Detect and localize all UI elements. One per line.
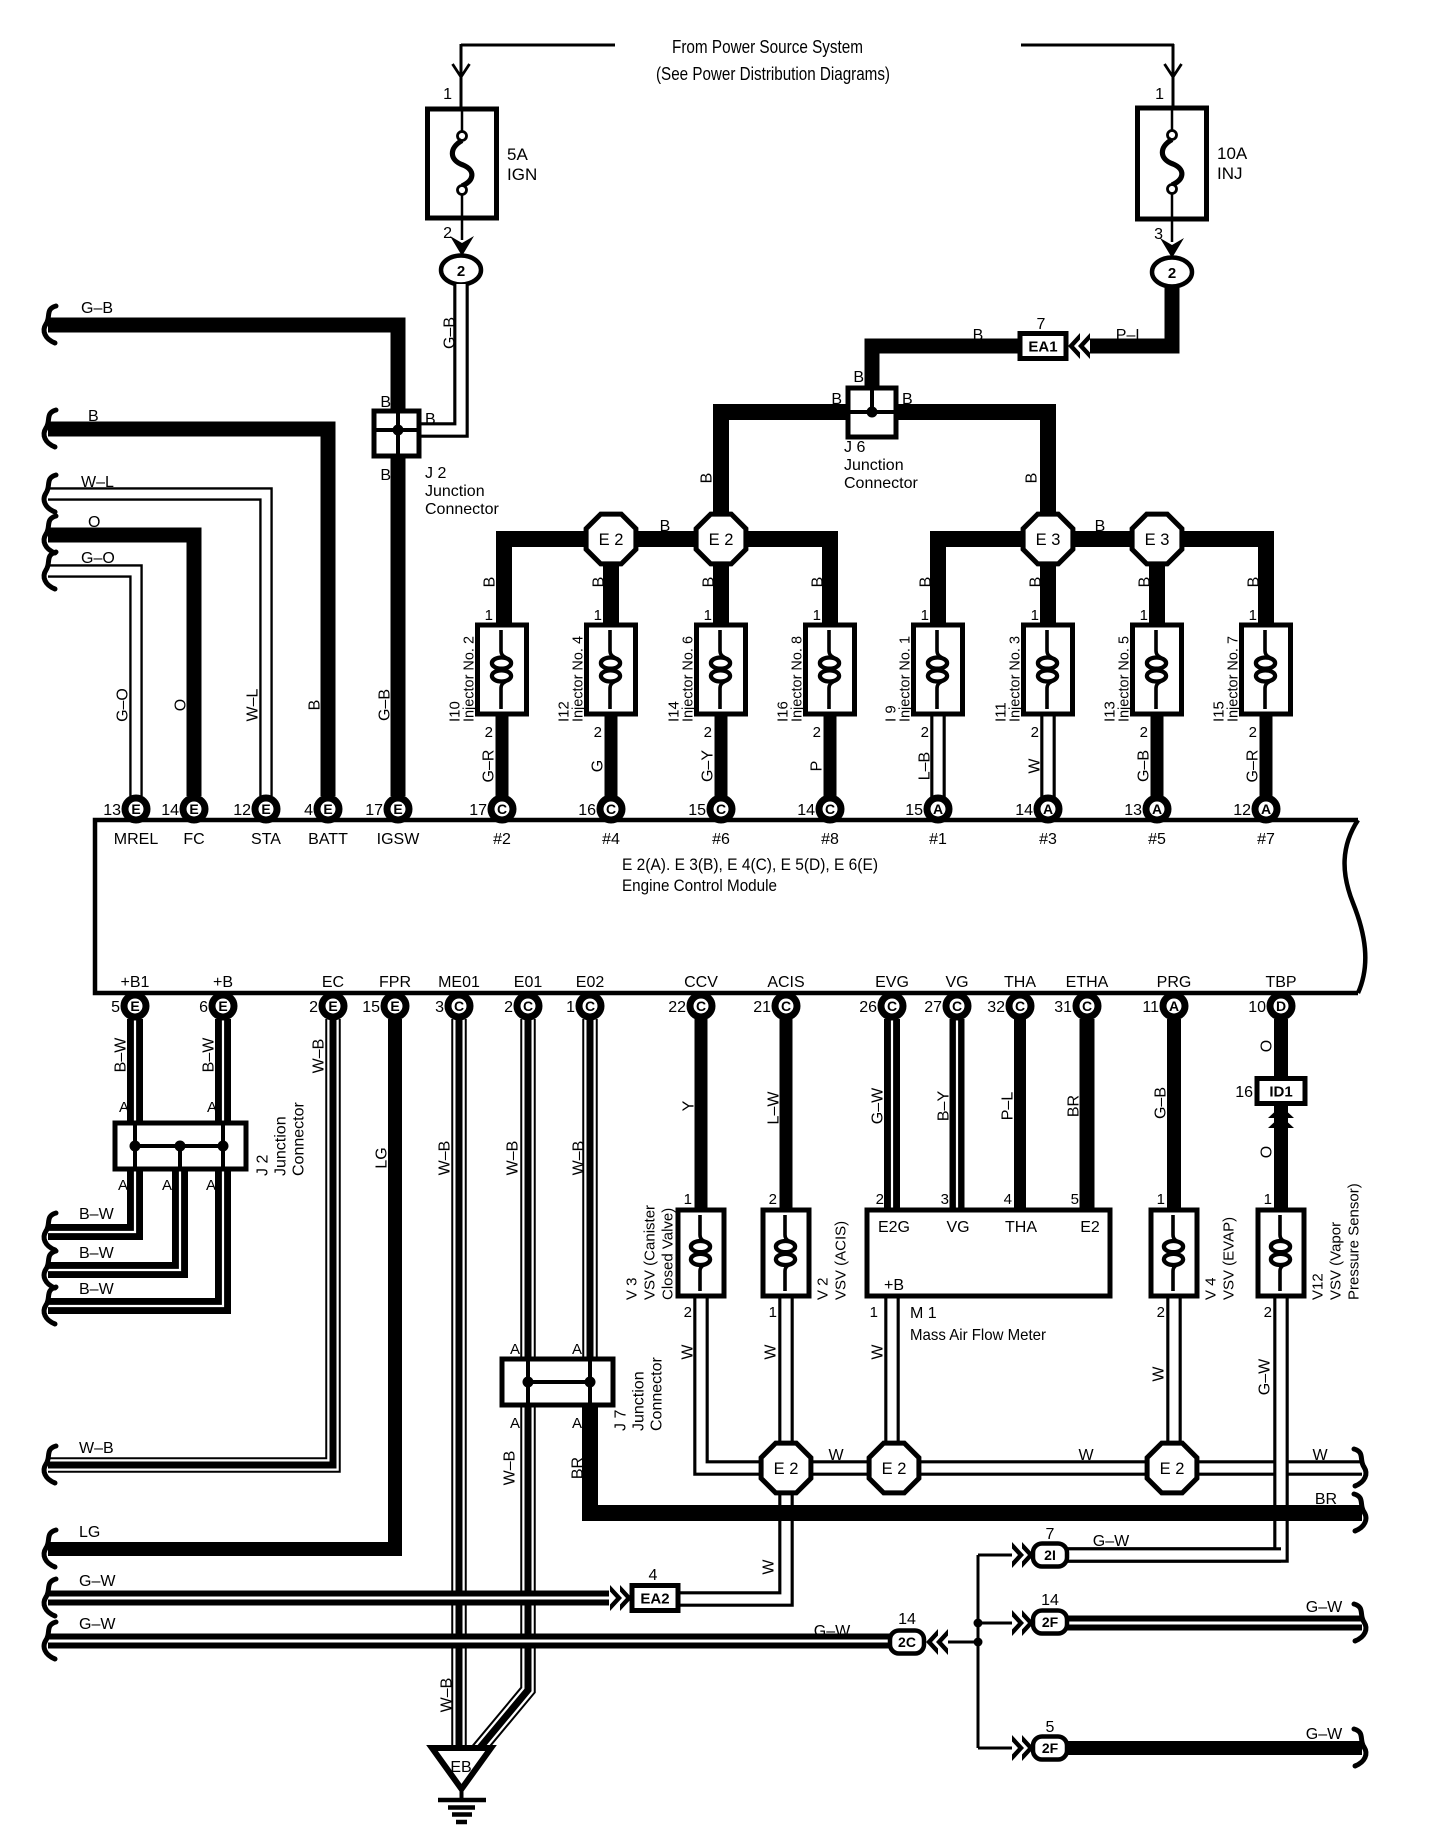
svg-text:1: 1 bbox=[921, 607, 929, 624]
svg-text:G–B: G–B bbox=[81, 300, 113, 317]
svg-text:W–B: W–B bbox=[311, 1039, 328, 1074]
svg-text:C: C bbox=[606, 801, 616, 817]
svg-text:1: 1 bbox=[443, 86, 452, 103]
svg-text:A: A bbox=[207, 1099, 217, 1116]
svg-text:G–B: G–B bbox=[442, 317, 459, 349]
svg-text:LG: LG bbox=[374, 1147, 391, 1168]
svg-text:(See Power Distribution Diagr: (See Power Distribution Diagrams) bbox=[656, 64, 890, 84]
svg-text:B: B bbox=[482, 577, 499, 588]
svg-text:A: A bbox=[510, 1415, 520, 1432]
svg-text:P–L: P–L bbox=[1116, 327, 1145, 344]
svg-text:2: 2 bbox=[813, 724, 821, 741]
svg-text:E: E bbox=[390, 998, 399, 1014]
svg-text:1: 1 bbox=[684, 1191, 692, 1208]
svg-text:15: 15 bbox=[362, 999, 380, 1016]
svg-text:E 2: E 2 bbox=[774, 1460, 799, 1478]
svg-text:B–W: B–W bbox=[79, 1206, 115, 1223]
svg-text:Y: Y bbox=[681, 1100, 698, 1111]
svg-text:G–W: G–W bbox=[79, 1573, 116, 1590]
svg-text:2: 2 bbox=[443, 225, 452, 242]
svg-text:E 2: E 2 bbox=[599, 531, 624, 549]
svg-text:1: 1 bbox=[1031, 607, 1039, 624]
svg-text:#2: #2 bbox=[493, 831, 511, 848]
svg-text:B: B bbox=[307, 700, 324, 711]
svg-text:A: A bbox=[1261, 801, 1271, 817]
svg-text:2: 2 bbox=[1168, 265, 1176, 282]
svg-text:W–B: W–B bbox=[505, 1141, 522, 1176]
svg-text:C: C bbox=[781, 998, 791, 1014]
svg-text:W: W bbox=[828, 1447, 844, 1464]
svg-text:EA2: EA2 bbox=[640, 1591, 669, 1608]
svg-text:W: W bbox=[1151, 1366, 1168, 1382]
svg-text:W–B: W–B bbox=[79, 1440, 114, 1457]
svg-text:1: 1 bbox=[566, 999, 575, 1016]
svg-text:P–L: P–L bbox=[1000, 1092, 1017, 1121]
svg-text:13: 13 bbox=[1124, 802, 1142, 819]
svg-text:E: E bbox=[131, 801, 140, 817]
svg-text:12: 12 bbox=[233, 802, 251, 819]
svg-text:E 2: E 2 bbox=[1160, 1460, 1185, 1478]
svg-text:B: B bbox=[973, 327, 984, 344]
svg-text:Junction: Junction bbox=[631, 1371, 648, 1431]
svg-text:1: 1 bbox=[1157, 1191, 1165, 1208]
svg-text:L–B: L–B bbox=[917, 752, 934, 780]
svg-text:ACIS: ACIS bbox=[767, 974, 804, 991]
svg-text:A: A bbox=[1169, 998, 1179, 1014]
svg-text:#5: #5 bbox=[1148, 831, 1166, 848]
svg-text:+B1: +B1 bbox=[121, 974, 150, 991]
svg-text:G–O: G–O bbox=[81, 550, 115, 567]
svg-text:C: C bbox=[952, 998, 962, 1014]
svg-text:G–B: G–B bbox=[1136, 750, 1153, 782]
svg-text:Connector: Connector bbox=[425, 501, 499, 518]
svg-text:G–W: G–W bbox=[870, 1087, 887, 1124]
svg-text:32: 32 bbox=[987, 999, 1005, 1016]
svg-text:VSV (ACIS): VSV (ACIS) bbox=[833, 1221, 850, 1300]
svg-text:G–O: G–O bbox=[115, 688, 132, 722]
svg-text:2C: 2C bbox=[898, 1634, 916, 1650]
svg-text:22: 22 bbox=[668, 999, 686, 1016]
svg-text:16: 16 bbox=[578, 802, 596, 819]
svg-text:G–W: G–W bbox=[1306, 1599, 1343, 1616]
svg-text:E2: E2 bbox=[1080, 1219, 1100, 1236]
svg-text:B–Y: B–Y bbox=[936, 1091, 953, 1122]
svg-text:Connector: Connector bbox=[844, 475, 918, 492]
svg-text:W–B: W–B bbox=[439, 1678, 456, 1713]
svg-text:G: G bbox=[590, 760, 607, 772]
svg-text:B: B bbox=[699, 473, 716, 484]
svg-text:A: A bbox=[572, 1415, 582, 1432]
svg-text:5A: 5A bbox=[507, 145, 528, 164]
svg-text:15: 15 bbox=[688, 802, 706, 819]
svg-text:B: B bbox=[1137, 577, 1154, 588]
svg-text:C: C bbox=[454, 998, 464, 1014]
svg-text:EVG: EVG bbox=[875, 974, 909, 991]
svg-text:J 2: J 2 bbox=[255, 1155, 272, 1176]
svg-text:16: 16 bbox=[1235, 1084, 1253, 1101]
svg-text:31: 31 bbox=[1054, 999, 1072, 1016]
svg-text:W–B: W–B bbox=[502, 1451, 519, 1486]
svg-text:B: B bbox=[1246, 577, 1263, 588]
svg-text:STA: STA bbox=[251, 831, 281, 848]
svg-text:L–W: L–W bbox=[766, 1091, 783, 1125]
svg-text:G–W: G–W bbox=[1257, 1358, 1274, 1395]
svg-text:1: 1 bbox=[1155, 86, 1164, 103]
svg-text:2: 2 bbox=[1264, 1304, 1272, 1321]
svg-text:1: 1 bbox=[1140, 607, 1148, 624]
svg-text:J 6: J 6 bbox=[844, 439, 865, 456]
svg-text:E 2(A). E 3(B), E 4(C), E 5(D): E 2(A). E 3(B), E 4(C), E 5(D), E 6(E) bbox=[622, 855, 878, 874]
svg-text:#1: #1 bbox=[929, 831, 947, 848]
svg-text:C: C bbox=[825, 801, 835, 817]
svg-text:B: B bbox=[380, 467, 391, 484]
svg-text:W: W bbox=[1312, 1447, 1328, 1464]
svg-text:2: 2 bbox=[1157, 1304, 1165, 1321]
svg-text:CCV: CCV bbox=[684, 974, 718, 991]
svg-text:14: 14 bbox=[898, 1611, 916, 1628]
svg-text:E 3: E 3 bbox=[1145, 531, 1170, 549]
svg-text:E02: E02 bbox=[576, 974, 605, 991]
svg-text:C: C bbox=[887, 998, 897, 1014]
svg-text:5: 5 bbox=[1046, 1719, 1055, 1736]
svg-text:O: O bbox=[1259, 1146, 1276, 1158]
svg-text:Pressure Sensor): Pressure Sensor) bbox=[1346, 1183, 1363, 1300]
svg-text:MREL: MREL bbox=[114, 831, 159, 848]
svg-text:W: W bbox=[680, 1344, 697, 1360]
svg-text:13: 13 bbox=[103, 802, 121, 819]
svg-text:Connector: Connector bbox=[649, 1357, 666, 1431]
svg-text:Injector No. 5: Injector No. 5 bbox=[1116, 636, 1133, 722]
svg-text:ETHA: ETHA bbox=[1066, 974, 1109, 991]
svg-text:G–Y: G–Y bbox=[700, 750, 717, 782]
svg-text:26: 26 bbox=[859, 999, 877, 1016]
svg-text:IGN: IGN bbox=[507, 165, 537, 184]
svg-text:Injector No. 7: Injector No. 7 bbox=[1225, 636, 1242, 722]
svg-text:1: 1 bbox=[813, 607, 821, 624]
svg-text:E 2: E 2 bbox=[709, 531, 734, 549]
svg-text:E: E bbox=[261, 801, 270, 817]
svg-text:TBP: TBP bbox=[1265, 974, 1296, 991]
svg-text:IGSW: IGSW bbox=[377, 831, 421, 848]
svg-text:B: B bbox=[1024, 473, 1041, 484]
svg-text:LG: LG bbox=[79, 1524, 100, 1541]
svg-text:BATT: BATT bbox=[308, 831, 348, 848]
svg-text:Mass Air Flow Meter: Mass Air Flow Meter bbox=[910, 1327, 1047, 1344]
svg-text:BR: BR bbox=[1066, 1095, 1083, 1117]
svg-text:B: B bbox=[918, 577, 935, 588]
svg-text:+B: +B bbox=[884, 1277, 904, 1294]
svg-text:E 3: E 3 bbox=[1036, 531, 1061, 549]
svg-text:V 4: V 4 bbox=[1203, 1277, 1220, 1300]
svg-text:3: 3 bbox=[435, 999, 444, 1016]
svg-text:A: A bbox=[1043, 801, 1053, 817]
svg-text:5: 5 bbox=[1071, 1191, 1079, 1208]
svg-text:VSV (EVAP): VSV (EVAP) bbox=[1221, 1217, 1238, 1300]
svg-text:3: 3 bbox=[941, 1191, 949, 1208]
svg-text:14: 14 bbox=[161, 802, 179, 819]
svg-text:EA1: EA1 bbox=[1028, 339, 1057, 356]
svg-text:VG: VG bbox=[945, 974, 968, 991]
svg-text:B–W: B–W bbox=[201, 1037, 218, 1073]
svg-text:2: 2 bbox=[921, 724, 929, 741]
svg-text:+B: +B bbox=[213, 974, 233, 991]
svg-text:2: 2 bbox=[769, 1191, 777, 1208]
svg-text:14: 14 bbox=[1015, 802, 1033, 819]
svg-text:W–B: W–B bbox=[571, 1141, 588, 1176]
svg-text:THA: THA bbox=[1004, 974, 1036, 991]
svg-text:E: E bbox=[218, 998, 227, 1014]
svg-text:A: A bbox=[933, 801, 943, 817]
svg-text:2: 2 bbox=[457, 263, 465, 280]
svg-text:G–W: G–W bbox=[79, 1616, 116, 1633]
svg-text:B: B bbox=[853, 369, 864, 386]
svg-text:14: 14 bbox=[797, 802, 815, 819]
svg-text:D: D bbox=[1276, 998, 1286, 1014]
svg-text:W: W bbox=[1027, 758, 1044, 774]
svg-text:2F: 2F bbox=[1042, 1740, 1059, 1756]
svg-text:2I: 2I bbox=[1044, 1547, 1056, 1563]
svg-text:7: 7 bbox=[1046, 1526, 1055, 1543]
svg-text:ME01: ME01 bbox=[438, 974, 480, 991]
svg-text:Injector No. 4: Injector No. 4 bbox=[570, 636, 587, 722]
svg-text:Injector No. 6: Injector No. 6 bbox=[680, 636, 697, 722]
svg-text:17: 17 bbox=[365, 802, 383, 819]
svg-text:G–W: G–W bbox=[814, 1623, 851, 1640]
svg-text:#6: #6 bbox=[712, 831, 730, 848]
svg-text:P: P bbox=[809, 761, 826, 772]
svg-text:B–W: B–W bbox=[79, 1245, 115, 1262]
svg-text:V12: V12 bbox=[1310, 1273, 1327, 1300]
svg-text:G–B: G–B bbox=[377, 689, 394, 721]
svg-text:W: W bbox=[870, 1344, 887, 1360]
svg-text:Injector No. 8: Injector No. 8 bbox=[789, 636, 806, 722]
svg-text:B: B bbox=[591, 577, 608, 588]
svg-text:B: B bbox=[660, 518, 671, 535]
svg-text:Injector No. 1: Injector No. 1 bbox=[897, 636, 914, 722]
svg-text:E2G: E2G bbox=[878, 1219, 910, 1236]
svg-text:INJ: INJ bbox=[1217, 164, 1243, 183]
svg-text:14: 14 bbox=[1041, 1592, 1059, 1609]
svg-text:27: 27 bbox=[924, 999, 942, 1016]
svg-text:VSV (Canister: VSV (Canister bbox=[642, 1205, 659, 1300]
svg-text:4: 4 bbox=[649, 1567, 658, 1584]
svg-text:5: 5 bbox=[111, 999, 120, 1016]
svg-text:10A: 10A bbox=[1217, 144, 1248, 163]
svg-text:11: 11 bbox=[1142, 999, 1159, 1016]
svg-text:Connector: Connector bbox=[291, 1102, 308, 1176]
svg-text:1: 1 bbox=[594, 607, 602, 624]
svg-text:V 2: V 2 bbox=[815, 1277, 832, 1300]
svg-text:A: A bbox=[118, 1177, 128, 1194]
svg-text:From Power Source System: From Power Source System bbox=[672, 37, 863, 57]
svg-text:2: 2 bbox=[504, 999, 513, 1016]
svg-text:C: C bbox=[696, 998, 706, 1014]
svg-text:2: 2 bbox=[1031, 724, 1039, 741]
svg-text:G–W: G–W bbox=[1093, 1533, 1130, 1550]
svg-text:O: O bbox=[173, 699, 190, 711]
svg-text:17: 17 bbox=[469, 802, 487, 819]
svg-text:1: 1 bbox=[769, 1304, 777, 1321]
svg-text:G–R: G–R bbox=[1245, 750, 1262, 783]
svg-text:A: A bbox=[510, 1341, 520, 1358]
svg-text:Junction: Junction bbox=[425, 483, 485, 500]
svg-text:21: 21 bbox=[753, 999, 771, 1016]
svg-text:2: 2 bbox=[485, 724, 493, 741]
svg-text:2: 2 bbox=[1249, 724, 1257, 741]
svg-text:M 1: M 1 bbox=[910, 1305, 937, 1322]
svg-text:B: B bbox=[1028, 577, 1045, 588]
svg-text:A: A bbox=[206, 1177, 216, 1194]
svg-text:W–B: W–B bbox=[437, 1141, 454, 1176]
svg-text:1: 1 bbox=[704, 607, 712, 624]
svg-text:EC: EC bbox=[322, 974, 344, 991]
svg-text:E: E bbox=[189, 801, 198, 817]
svg-text:C: C bbox=[523, 998, 533, 1014]
svg-text:G–W: G–W bbox=[1306, 1726, 1343, 1743]
svg-text:E 2: E 2 bbox=[882, 1460, 907, 1478]
svg-text:Engine Control Module: Engine Control Module bbox=[622, 876, 777, 895]
svg-text:2F: 2F bbox=[1042, 1614, 1059, 1630]
svg-text:W: W bbox=[1078, 1447, 1094, 1464]
svg-text:2: 2 bbox=[594, 724, 602, 741]
svg-text:B: B bbox=[425, 411, 436, 428]
svg-text:E: E bbox=[393, 801, 402, 817]
svg-text:A: A bbox=[1152, 801, 1162, 817]
svg-text:#4: #4 bbox=[602, 831, 620, 848]
svg-text:10: 10 bbox=[1248, 999, 1266, 1016]
svg-text:2: 2 bbox=[309, 999, 318, 1016]
svg-text:#8: #8 bbox=[821, 831, 839, 848]
svg-text:O: O bbox=[88, 514, 100, 531]
svg-text:W: W bbox=[763, 1344, 780, 1360]
svg-text:B–W: B–W bbox=[113, 1037, 130, 1073]
svg-text:15: 15 bbox=[905, 802, 923, 819]
svg-text:Closed Valve): Closed Valve) bbox=[660, 1208, 677, 1300]
svg-text:J 7: J 7 bbox=[613, 1410, 630, 1431]
svg-text:V 3: V 3 bbox=[624, 1277, 641, 1300]
svg-text:1: 1 bbox=[485, 607, 493, 624]
svg-text:1: 1 bbox=[1249, 607, 1257, 624]
svg-text:VG: VG bbox=[946, 1219, 969, 1236]
svg-text:4: 4 bbox=[304, 802, 313, 819]
svg-text:C: C bbox=[497, 801, 507, 817]
svg-text:BR: BR bbox=[570, 1457, 587, 1479]
svg-text:Injector No. 2: Injector No. 2 bbox=[461, 636, 478, 722]
svg-text:B: B bbox=[701, 577, 718, 588]
svg-text:B–W: B–W bbox=[79, 1281, 115, 1298]
svg-text:PRG: PRG bbox=[1157, 974, 1192, 991]
svg-text:Junction: Junction bbox=[273, 1116, 290, 1176]
svg-text:BR: BR bbox=[1315, 1491, 1337, 1508]
svg-text:C: C bbox=[716, 801, 726, 817]
svg-text:G–R: G–R bbox=[481, 750, 498, 783]
svg-text:A: A bbox=[162, 1177, 172, 1194]
svg-text:1: 1 bbox=[1264, 1191, 1272, 1208]
svg-text:C: C bbox=[1015, 998, 1025, 1014]
svg-text:B: B bbox=[810, 577, 827, 588]
svg-text:2: 2 bbox=[684, 1304, 692, 1321]
svg-text:B: B bbox=[1095, 518, 1106, 535]
svg-text:Injector No. 3: Injector No. 3 bbox=[1007, 636, 1024, 722]
svg-text:ID1: ID1 bbox=[1269, 1084, 1292, 1101]
svg-text:6: 6 bbox=[199, 999, 208, 1016]
svg-text:A: A bbox=[572, 1341, 582, 1358]
svg-text:7: 7 bbox=[1037, 316, 1046, 333]
svg-text:O: O bbox=[1259, 1040, 1276, 1052]
svg-text:12: 12 bbox=[1233, 802, 1251, 819]
svg-text:E: E bbox=[323, 801, 332, 817]
svg-text:J 2: J 2 bbox=[425, 465, 446, 482]
svg-text:4: 4 bbox=[1004, 1191, 1012, 1208]
svg-text:VSV (Vapor: VSV (Vapor bbox=[1328, 1222, 1345, 1300]
svg-text:W: W bbox=[761, 1559, 778, 1575]
svg-text:C: C bbox=[1082, 998, 1092, 1014]
svg-text:2: 2 bbox=[1140, 724, 1148, 741]
svg-text:EB: EB bbox=[450, 1759, 471, 1776]
svg-text:2: 2 bbox=[876, 1191, 884, 1208]
svg-text:E: E bbox=[130, 998, 139, 1014]
svg-text:#7: #7 bbox=[1257, 831, 1275, 848]
svg-text:FC: FC bbox=[183, 831, 204, 848]
svg-text:Junction: Junction bbox=[844, 457, 904, 474]
svg-text:W–L: W–L bbox=[245, 688, 262, 721]
svg-text:W–L: W–L bbox=[81, 474, 114, 491]
svg-text:FPR: FPR bbox=[379, 974, 411, 991]
svg-text:2: 2 bbox=[704, 724, 712, 741]
svg-text:THA: THA bbox=[1005, 1219, 1037, 1236]
svg-text:B: B bbox=[380, 394, 391, 411]
svg-text:E01: E01 bbox=[514, 974, 543, 991]
svg-text:E: E bbox=[328, 998, 337, 1014]
svg-text:1: 1 bbox=[870, 1304, 878, 1321]
svg-text:A: A bbox=[119, 1099, 129, 1116]
svg-text:C: C bbox=[585, 998, 595, 1014]
svg-text:#3: #3 bbox=[1039, 831, 1057, 848]
svg-text:B: B bbox=[88, 408, 99, 425]
svg-text:G–B: G–B bbox=[1153, 1087, 1170, 1119]
